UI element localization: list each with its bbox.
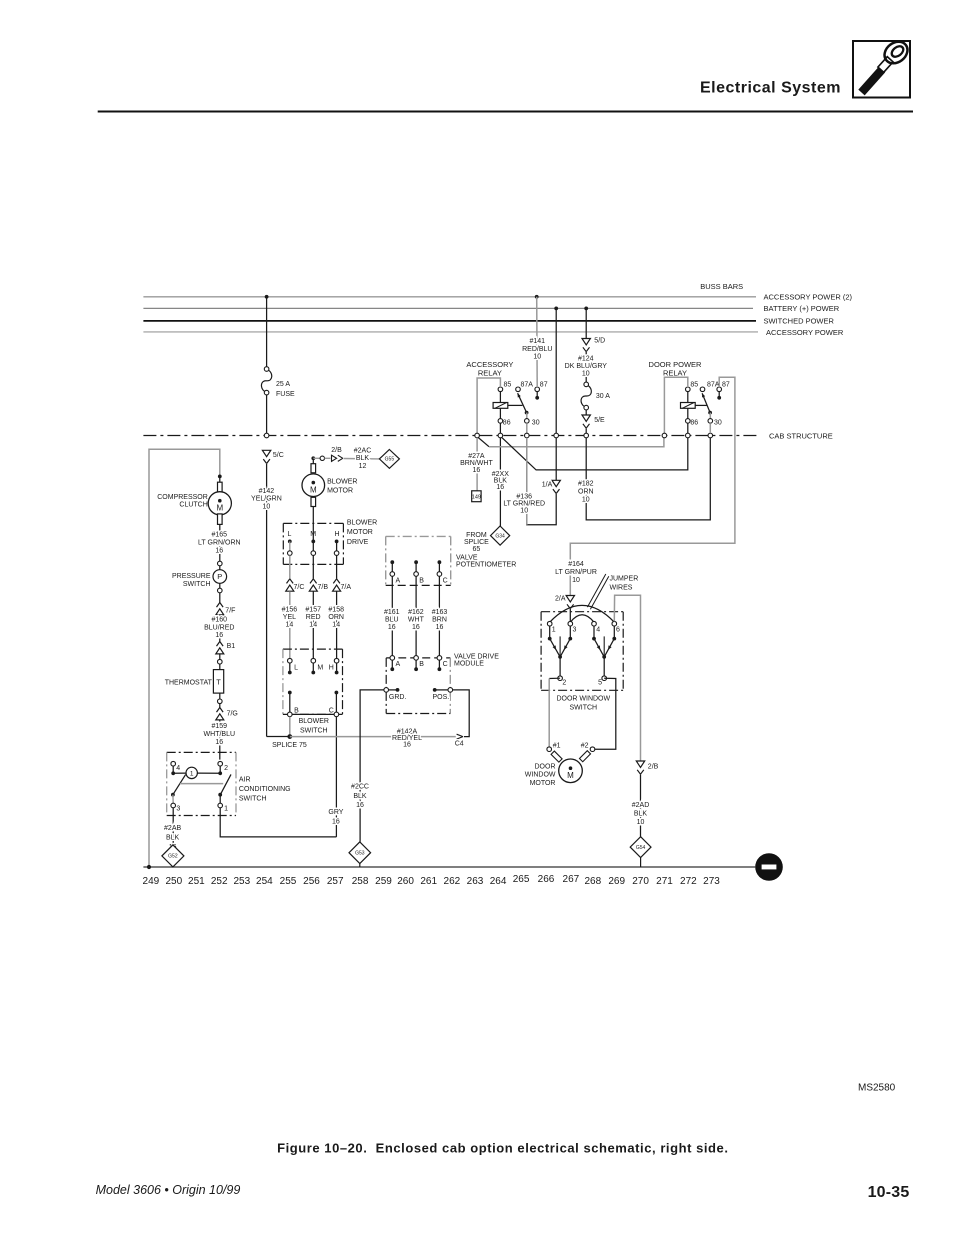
svg-text:MODULE: MODULE: [454, 661, 484, 668]
svg-text:C: C: [443, 578, 448, 585]
svg-text:85: 85: [690, 382, 698, 389]
svg-text:G54: G54: [636, 845, 646, 851]
svg-text:DOOR WINDOW: DOOR WINDOW: [556, 696, 610, 703]
svg-text:WINDOW: WINDOW: [525, 772, 556, 779]
svg-text:257: 257: [327, 876, 344, 887]
svg-text:POS.: POS.: [433, 694, 450, 701]
svg-text:DOOR: DOOR: [535, 763, 556, 770]
svg-text:1: 1: [552, 626, 556, 633]
svg-text:1/A: 1/A: [542, 482, 553, 489]
svg-text:BLOWER: BLOWER: [347, 520, 377, 527]
svg-text:16: 16: [496, 484, 504, 491]
svg-text:65: 65: [473, 546, 481, 553]
svg-text:14: 14: [309, 621, 317, 628]
svg-text:SPLICE: SPLICE: [464, 539, 489, 546]
svg-text:85: 85: [504, 382, 512, 389]
svg-text:86: 86: [690, 419, 698, 426]
svg-text:16: 16: [403, 741, 411, 748]
svg-text:10: 10: [572, 577, 580, 584]
svg-text:MS2580: MS2580: [858, 1082, 896, 1093]
svg-text:3: 3: [573, 626, 577, 633]
svg-text:87: 87: [722, 382, 730, 389]
svg-text:#165: #165: [212, 531, 228, 538]
svg-text:10-35: 10-35: [868, 1184, 910, 1201]
svg-text:6: 6: [616, 626, 620, 633]
svg-text:G52: G52: [168, 854, 178, 860]
svg-text:1: 1: [224, 805, 228, 812]
svg-text:VALVE DRIVE: VALVE DRIVE: [454, 654, 499, 661]
svg-text:CAB STRUCTURE: CAB STRUCTURE: [769, 431, 833, 440]
svg-text:16: 16: [215, 632, 223, 639]
svg-text:SWITCH: SWITCH: [239, 796, 267, 803]
svg-text:251: 251: [188, 876, 205, 887]
svg-text:Figure 10–20. Enclosed cab op: Figure 10–20. Enclosed cab option electr…: [277, 1141, 728, 1156]
svg-text:258: 258: [352, 876, 369, 887]
svg-text:260: 260: [397, 876, 414, 887]
svg-text:16: 16: [215, 547, 223, 554]
svg-text:A: A: [396, 661, 401, 668]
svg-text:268: 268: [584, 876, 601, 887]
svg-text:5/C: 5/C: [273, 452, 284, 459]
svg-text:BLU/RED: BLU/RED: [204, 624, 234, 631]
svg-text:16: 16: [473, 467, 481, 474]
svg-text:VALVE: VALVE: [456, 554, 478, 561]
svg-text:2/B: 2/B: [331, 447, 342, 454]
svg-text:#1: #1: [553, 743, 561, 750]
svg-text:#159: #159: [212, 723, 228, 730]
svg-text:265: 265: [513, 874, 530, 885]
svg-text:YEL/GRN: YEL/GRN: [251, 496, 282, 503]
svg-text:THERMOSTAT: THERMOSTAT: [165, 679, 213, 686]
svg-text:SWITCHED POWER: SWITCHED POWER: [764, 317, 835, 326]
svg-text:7/B: 7/B: [318, 584, 329, 591]
svg-text:30: 30: [532, 419, 540, 426]
svg-text:12: 12: [359, 463, 367, 470]
svg-text:BLOWER: BLOWER: [299, 718, 329, 725]
svg-text:259: 259: [375, 876, 392, 887]
svg-text:#2AC: #2AC: [354, 447, 372, 454]
svg-text:#156: #156: [282, 607, 298, 614]
svg-text:14: 14: [332, 621, 340, 628]
svg-text:#157: #157: [305, 607, 321, 614]
svg-text:BLU: BLU: [385, 616, 399, 623]
svg-text:4: 4: [596, 626, 600, 633]
svg-text:272: 272: [680, 876, 697, 887]
svg-text:H: H: [329, 665, 334, 672]
svg-text:2: 2: [562, 680, 566, 687]
svg-text:YEL: YEL: [283, 614, 296, 621]
svg-text:M: M: [567, 771, 574, 780]
svg-text:1: 1: [190, 771, 194, 778]
svg-text:5: 5: [598, 680, 602, 687]
svg-text:2/A: 2/A: [555, 595, 566, 602]
svg-text:#160: #160: [212, 616, 228, 623]
svg-text:PRESSURE: PRESSURE: [172, 573, 211, 580]
svg-text:#182: #182: [578, 481, 594, 488]
svg-text:BATTERY (+) POWER: BATTERY (+) POWER: [764, 304, 840, 313]
svg-text:3: 3: [176, 805, 180, 812]
svg-text:10: 10: [582, 497, 590, 504]
svg-text:AIR: AIR: [239, 777, 251, 784]
svg-text:LT GRN/PUR: LT GRN/PUR: [555, 569, 597, 576]
svg-text:271: 271: [656, 876, 673, 887]
svg-text:G55: G55: [385, 457, 395, 463]
svg-text:255: 255: [280, 876, 297, 887]
svg-text:BLK: BLK: [166, 835, 180, 842]
svg-text:C: C: [329, 708, 334, 715]
svg-text:2/B: 2/B: [648, 763, 659, 770]
svg-text:MOTOR: MOTOR: [530, 780, 556, 787]
svg-text:G53: G53: [355, 851, 365, 857]
svg-text:10: 10: [637, 819, 645, 826]
svg-text:WIRES: WIRES: [610, 584, 633, 591]
svg-text:10: 10: [263, 503, 271, 510]
svg-text:ORN: ORN: [328, 614, 344, 621]
svg-text:C4: C4: [455, 741, 464, 748]
svg-text:L: L: [287, 531, 291, 538]
svg-text:#124: #124: [578, 355, 594, 362]
svg-text:#27A: #27A: [468, 453, 485, 460]
svg-text:B: B: [419, 578, 424, 585]
svg-text:5/E: 5/E: [594, 417, 605, 424]
svg-text:14: 14: [286, 621, 294, 628]
svg-text:COMPRESSOR: COMPRESSOR: [157, 494, 208, 501]
svg-text:16: 16: [436, 624, 444, 631]
svg-text:POTENTIOMETER: POTENTIOMETER: [456, 561, 516, 568]
svg-text:16: 16: [388, 624, 396, 631]
svg-text:RED: RED: [306, 614, 321, 621]
svg-text:LT GRN/ORN: LT GRN/ORN: [198, 539, 241, 546]
svg-text:BLK: BLK: [353, 793, 367, 800]
svg-text:10: 10: [520, 507, 528, 514]
svg-text:10: 10: [582, 371, 590, 378]
svg-text:FUSE: FUSE: [276, 391, 295, 398]
svg-text:B: B: [294, 708, 299, 715]
svg-text:RELAY: RELAY: [663, 368, 687, 377]
svg-text:JUMPER: JUMPER: [610, 576, 639, 583]
svg-text:ORN: ORN: [578, 489, 594, 496]
svg-text:ACCESSORY POWER: ACCESSORY POWER: [766, 328, 844, 337]
svg-text:16: 16: [412, 624, 420, 631]
svg-text:Model 3606 • Origin 10/99: Model 3606 • Origin 10/99: [96, 1183, 241, 1197]
svg-text:249: 249: [143, 876, 160, 887]
svg-text:GRD.: GRD.: [389, 694, 407, 701]
svg-text:266: 266: [538, 874, 555, 885]
svg-text:M: M: [310, 485, 317, 494]
svg-text:16: 16: [356, 802, 364, 809]
svg-text:10: 10: [533, 354, 541, 361]
svg-text:B: B: [419, 661, 424, 668]
svg-text:254: 254: [256, 876, 273, 887]
svg-text:CLUTCH: CLUTCH: [179, 501, 207, 508]
svg-text:MOTOR: MOTOR: [327, 487, 353, 494]
svg-text:#2CC: #2CC: [351, 783, 369, 790]
svg-text:256: 256: [303, 876, 320, 887]
svg-text:MOTOR: MOTOR: [347, 529, 373, 536]
svg-text:86: 86: [503, 419, 511, 426]
svg-text:LT GRN/RED: LT GRN/RED: [503, 500, 545, 507]
svg-text:BLK: BLK: [356, 455, 370, 462]
svg-text:M: M: [317, 665, 323, 672]
svg-text:#2AD: #2AD: [632, 802, 650, 809]
svg-text:DK BLU/GRY: DK BLU/GRY: [565, 363, 608, 370]
svg-text:87A: 87A: [707, 382, 720, 389]
svg-text:BLOWER: BLOWER: [327, 478, 357, 485]
svg-text:L: L: [294, 665, 298, 672]
svg-text:RED/BLU: RED/BLU: [522, 346, 552, 353]
svg-text:7/G: 7/G: [227, 711, 238, 718]
svg-text:SPLICE 75: SPLICE 75: [272, 742, 307, 749]
svg-text:FROM: FROM: [466, 532, 487, 539]
svg-text:270: 270: [632, 876, 649, 887]
svg-text:BRN/WHT: BRN/WHT: [460, 460, 493, 467]
svg-text:SWITCH: SWITCH: [183, 581, 211, 588]
svg-text:#161: #161: [384, 609, 400, 616]
svg-text:#2: #2: [581, 743, 589, 750]
svg-text:#162: #162: [408, 609, 424, 616]
svg-text:16: 16: [332, 819, 340, 826]
svg-text:7/A: 7/A: [341, 584, 352, 591]
svg-text:87: 87: [540, 382, 548, 389]
svg-text:DRIVE: DRIVE: [347, 539, 369, 546]
svg-text:RELAY: RELAY: [478, 368, 502, 377]
svg-text:CONDITIONING: CONDITIONING: [239, 786, 291, 793]
svg-text:252: 252: [211, 876, 228, 887]
svg-text:267: 267: [563, 874, 580, 885]
svg-text:GRY: GRY: [328, 809, 343, 816]
svg-text:30 A: 30 A: [596, 393, 610, 400]
svg-text:WHT/BLU: WHT/BLU: [204, 731, 236, 738]
svg-text:BUSS BARS: BUSS BARS: [700, 282, 743, 291]
svg-text:7/C: 7/C: [294, 584, 305, 591]
svg-text:263: 263: [467, 876, 484, 887]
svg-text:2: 2: [224, 765, 228, 772]
svg-text:T: T: [216, 677, 221, 686]
svg-text:4: 4: [176, 765, 180, 772]
svg-text:SWITCH: SWITCH: [300, 727, 328, 734]
svg-text:SWITCH: SWITCH: [569, 704, 597, 711]
svg-text:87A: 87A: [521, 382, 534, 389]
svg-text:G34: G34: [495, 533, 505, 539]
svg-text:#2AB: #2AB: [164, 825, 181, 832]
svg-text:P: P: [217, 572, 222, 581]
svg-text:#141: #141: [530, 338, 546, 345]
svg-text:Electrical System: Electrical System: [700, 80, 841, 97]
svg-text:BLK: BLK: [634, 810, 648, 817]
svg-text:M: M: [216, 504, 223, 513]
svg-text:262: 262: [444, 876, 461, 887]
svg-text:WHT: WHT: [408, 616, 425, 623]
svg-text:#136: #136: [516, 493, 532, 500]
svg-text:A: A: [396, 578, 401, 585]
svg-text:250: 250: [165, 876, 182, 887]
svg-text:#142: #142: [259, 488, 275, 495]
svg-text:30: 30: [714, 419, 722, 426]
svg-text:7/F: 7/F: [225, 608, 235, 615]
svg-text:269: 269: [608, 876, 625, 887]
svg-text:H: H: [334, 531, 339, 538]
svg-text:ACCESSORY POWER (2): ACCESSORY POWER (2): [764, 293, 853, 302]
svg-text:253: 253: [233, 876, 250, 887]
svg-text:264: 264: [490, 876, 507, 887]
svg-text:261: 261: [420, 876, 437, 887]
svg-text:C: C: [443, 661, 448, 668]
svg-text:16: 16: [215, 739, 223, 746]
svg-text:149: 149: [472, 495, 481, 501]
svg-text:#158: #158: [328, 607, 344, 614]
svg-text:5/D: 5/D: [594, 337, 605, 344]
svg-text:#164: #164: [568, 561, 584, 568]
svg-text:BRN: BRN: [432, 616, 447, 623]
svg-text:B1: B1: [227, 643, 236, 650]
svg-text:273: 273: [703, 876, 720, 887]
svg-text:25 A: 25 A: [276, 381, 290, 388]
svg-text:#163: #163: [432, 609, 448, 616]
